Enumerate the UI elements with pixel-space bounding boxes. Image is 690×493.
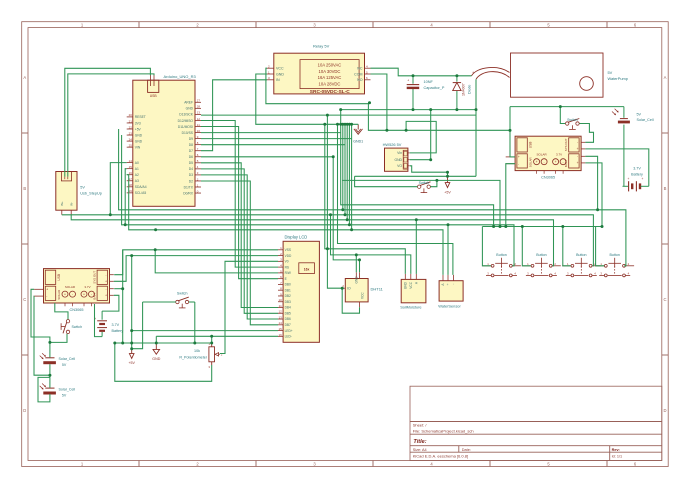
wire switch SW8 left feed <box>143 301 176 303</box>
svg-text:+: + <box>64 292 66 296</box>
svg-text:SDA/A4: SDA/A4 <box>135 185 147 189</box>
svg-text:Vin: Vin <box>397 151 402 155</box>
wire VDD right rail to SoilMoisture VCC <box>331 215 411 274</box>
LCD pins 1-16 <box>278 246 293 338</box>
svg-text:Solar_Cell: Solar_Cell <box>59 388 76 392</box>
svg-text:+: + <box>105 294 107 298</box>
wire D13 branch to DHT IO <box>327 115 342 288</box>
svg-text:DB4: DB4 <box>285 306 291 310</box>
battery BT1 3.7V (right) <box>623 167 649 192</box>
svg-text:+: + <box>83 292 85 296</box>
svg-text:3.7V: 3.7V <box>556 152 562 156</box>
boost module U8 5V Usb_StepUp <box>56 172 102 215</box>
wire switch SW8 left leg <box>132 302 143 349</box>
solar cell PV2 5V Solar_Cell (upper left) <box>40 353 76 367</box>
diode D1 1N4007 <box>453 76 472 110</box>
wire pump cable second terminal <box>475 79 477 109</box>
capacitor C1 10NF Capacitor_P <box>407 76 445 110</box>
ground GND1 <box>353 124 363 143</box>
svg-text:D5: D5 <box>189 161 193 165</box>
svg-text:+: + <box>555 160 557 164</box>
svg-text:D0/RX: D0/RX <box>183 191 194 195</box>
wire GND rail mid <box>115 342 212 344</box>
wire GND trunk left <box>122 250 124 343</box>
svg-text:A: A <box>664 75 667 80</box>
Arduino UNO R3 module A1 <box>133 74 197 206</box>
svg-text:Date:: Date: <box>462 448 471 452</box>
svg-text:15: 15 <box>129 165 133 169</box>
svg-text:21: 21 <box>129 119 133 123</box>
svg-text:AREF: AREF <box>184 101 193 105</box>
svg-text:RESET: RESET <box>135 115 146 119</box>
svg-text:File: SchematicaProject.kicad_: File: SchematicaProject.kicad_sch <box>413 428 474 433</box>
wire A0 to row3 <box>110 163 126 215</box>
svg-text:DHT11: DHT11 <box>371 287 384 292</box>
wire USB D- StepUp to Arduino <box>68 74 154 177</box>
svg-text:USB: USB <box>529 142 533 149</box>
svg-text:Switch: Switch <box>177 292 188 296</box>
svg-text:D2: D2 <box>189 179 193 183</box>
svg-text:GND: GND <box>186 107 194 111</box>
wire solar cell2 loop <box>38 377 50 402</box>
svg-text:A2: A2 <box>135 173 139 177</box>
svg-text:WaterSensor: WaterSensor <box>438 304 461 309</box>
svg-text:+: + <box>472 71 474 75</box>
svg-text:A1: A1 <box>135 167 139 171</box>
relay K1 Relay 5V <box>274 44 365 95</box>
wire relay GND trunk <box>256 74 358 124</box>
svg-text:28: 28 <box>197 105 201 109</box>
svg-text:-: - <box>452 284 456 285</box>
svg-text:+: + <box>577 147 579 151</box>
svg-text:RS: RS <box>285 265 289 269</box>
relay right pins NC COM NO <box>354 65 370 83</box>
wire D4 to LCD DB5 <box>201 169 278 313</box>
button SW5 <box>522 253 561 277</box>
svg-text:+: + <box>518 155 520 159</box>
wire SoilMoisture A to row4 <box>415 220 417 274</box>
wire D3 to LCD DB6 <box>201 175 278 319</box>
svg-text:+: + <box>407 79 409 83</box>
svg-text:11: 11 <box>197 123 200 127</box>
wire cluster line 4 <box>346 124 348 220</box>
svg-text:GND1: GND1 <box>353 139 363 143</box>
wire D8 long wire <box>201 144 345 146</box>
svg-text:1N4007: 1N4007 <box>462 83 466 96</box>
wire cluster line 6 <box>351 124 353 230</box>
wire switch SW2 right to switched rail <box>430 180 437 186</box>
svg-text:VCC: VCC <box>276 67 284 71</box>
wire cluster line 5 <box>348 124 350 225</box>
wire switched +5V rail <box>342 180 500 226</box>
display LCD1 Display LCD <box>283 235 319 343</box>
wire D6 to DHT11 second pin <box>201 157 360 272</box>
wire row3 stepup+ to button3 pin2 <box>62 215 594 266</box>
svg-text:IN: IN <box>276 78 280 82</box>
svg-text:22: 22 <box>129 125 133 129</box>
wire COM node to +5V rail <box>475 110 477 177</box>
wire solar input + left <box>31 289 50 357</box>
svg-text:23: 23 <box>129 131 133 135</box>
svg-text:-: - <box>563 160 564 164</box>
svg-text:D4: D4 <box>189 167 193 171</box>
svg-text:KiCad E.D.A. eeschema [6.0.8]: KiCad E.D.A. eeschema [6.0.8] <box>413 454 468 459</box>
svg-text:Battery: Battery <box>631 172 643 176</box>
svg-text:COM: COM <box>354 72 362 76</box>
svg-text:5V: 5V <box>80 185 85 189</box>
wire D12 to LCD RS <box>201 121 278 268</box>
svg-text:VCC: VCC <box>361 292 365 299</box>
wire D9 long wire <box>201 138 352 140</box>
svg-text:-: - <box>72 292 73 296</box>
wire button3 pin1 drop <box>563 227 571 266</box>
svg-text:14: 14 <box>278 321 282 325</box>
svg-text:WaterPump: WaterPump <box>608 76 628 81</box>
wire DHT11 bottom hook <box>342 288 359 313</box>
svg-text:C: C <box>23 297 26 302</box>
wire solar cell2 top lead <box>49 377 51 387</box>
sensor U5 WaterSensor <box>438 275 463 309</box>
svg-text:25: 25 <box>129 143 133 147</box>
wire +5V drop from VDD rail <box>131 256 133 349</box>
svg-text:10A 250VAC: 10A 250VAC <box>318 62 342 67</box>
svg-text:5V: 5V <box>608 70 613 75</box>
wire switch SW1 to SYS OUT - <box>579 124 593 143</box>
svg-text:GND: GND <box>276 72 284 76</box>
svg-text:-: - <box>105 287 106 291</box>
svg-text:+: + <box>577 161 579 165</box>
water pump M1 5V WaterPump <box>511 53 628 97</box>
svg-text:14: 14 <box>129 159 133 163</box>
wire relay VCC to solar rail <box>266 68 510 130</box>
svg-text:V0: V0 <box>285 260 289 264</box>
svg-text:GND: GND <box>404 281 408 289</box>
svg-text:DB3: DB3 <box>285 300 291 304</box>
sensor U4 SoilMoisture <box>400 274 426 310</box>
button SW4 <box>482 253 521 277</box>
svg-text:+5V: +5V <box>444 191 451 195</box>
svg-text:SOLAR: SOLAR <box>65 285 76 289</box>
svg-text:-: - <box>544 160 545 164</box>
svg-text:D3: D3 <box>189 173 193 177</box>
Arduino right-side pins D0-D13/AREF/GND <box>178 99 201 196</box>
twisted-pair cable to water pump <box>472 68 510 80</box>
svg-text:D6: D6 <box>189 155 193 159</box>
svg-text:Button: Button <box>610 253 620 257</box>
svg-text:NO: NO <box>357 78 363 82</box>
svg-text:+: + <box>46 288 48 292</box>
svg-text:A: A <box>23 75 26 80</box>
solar cell PV3 5V Solar_Cell (lower left) <box>40 384 76 398</box>
wire relay NC node <box>371 68 472 76</box>
svg-text:Arduino_UNO_R3: Arduino_UNO_R3 <box>164 74 197 79</box>
svg-text:-: - <box>91 292 92 296</box>
wire D13 long wire <box>201 114 476 116</box>
title block <box>410 386 662 460</box>
wire switch SW3 top <box>55 303 68 319</box>
junction GND trunk cluster <box>323 123 353 126</box>
svg-text:Switch: Switch <box>419 181 430 185</box>
wire SYS OUT + to battery right <box>585 149 648 186</box>
svg-text:10A 28VDC: 10A 28VDC <box>319 82 341 87</box>
wire BATT - right <box>585 156 597 210</box>
svg-text:13: 13 <box>278 315 282 319</box>
svg-text:15: 15 <box>278 327 282 331</box>
svg-text:Title:: Title: <box>413 439 426 445</box>
svg-text:16A 125VAC: 16A 125VAC <box>318 75 342 80</box>
wire D10 long wire <box>201 132 341 134</box>
ground GND (bottom left) <box>152 343 160 361</box>
svg-text:Solar_Cell: Solar_Cell <box>637 118 654 122</box>
svg-text:Display LCD: Display LCD <box>285 235 308 240</box>
svg-text:DB6: DB6 <box>285 317 291 321</box>
switch SW8 (display power) <box>176 292 189 308</box>
svg-text:D9: D9 <box>189 137 193 141</box>
wire USB D+ StepUp to Arduino <box>65 68 151 176</box>
wire cluster line 2 <box>342 124 344 210</box>
svg-text:-: - <box>577 155 578 159</box>
wire switch SW2 left feed <box>355 176 418 186</box>
junction solar left <box>48 341 213 377</box>
junction HW526 area <box>368 101 449 182</box>
wire potentiometer return loop <box>115 343 212 381</box>
svg-text:+5V: +5V <box>135 127 142 131</box>
button SW7 <box>596 253 635 277</box>
svg-text:GND: GND <box>135 133 143 137</box>
svg-text:Diode: Diode <box>468 85 472 94</box>
svg-text:Button: Button <box>536 253 546 257</box>
svg-text:12: 12 <box>278 310 282 314</box>
svg-text:D: D <box>663 408 666 413</box>
svg-text:Solar_Cell: Solar_Cell <box>59 357 76 361</box>
svg-text:DB2: DB2 <box>285 294 291 298</box>
svg-text:D13/SCK: D13/SCK <box>179 113 194 117</box>
svg-text:D7: D7 <box>189 149 193 153</box>
svg-text:27: 27 <box>197 99 201 103</box>
svg-text:VIN: VIN <box>135 145 141 149</box>
wire solar input - left <box>34 296 50 375</box>
wire row5 GND to button1 pin2 <box>122 135 514 266</box>
svg-text:HW526 5V: HW526 5V <box>383 142 402 147</box>
power +5V (bottom left) <box>128 349 135 365</box>
svg-text:10: 10 <box>197 129 201 133</box>
wire pump area rail <box>510 106 624 108</box>
wire HW526 VO to +5V <box>410 166 448 177</box>
junction relay node junctions <box>326 74 478 132</box>
Arduino analog pins A0-A5 <box>127 159 147 195</box>
svg-text:Sheet: /: Sheet: / <box>413 422 428 427</box>
svg-text:12: 12 <box>197 117 201 121</box>
svg-text:D: D <box>23 408 26 413</box>
wire rail to switch SW1 <box>560 107 565 124</box>
svg-text:IN+: IN+ <box>60 201 64 206</box>
svg-text:13: 13 <box>197 111 201 115</box>
svg-text:10NF: 10NF <box>424 80 434 84</box>
wire left CN SYS+ to LCD VDD <box>114 256 278 282</box>
svg-text:+: + <box>105 280 107 284</box>
wire GND right rail to SoilMoisture GND <box>325 124 406 274</box>
svg-text:USB: USB <box>150 94 158 98</box>
svg-text:5V: 5V <box>637 112 642 116</box>
svg-text:VDD: VDD <box>285 254 292 258</box>
svg-text:3.7V: 3.7V <box>633 167 641 171</box>
wire GND cluster line 1 to buttons <box>341 124 494 226</box>
svg-text:16: 16 <box>278 333 282 337</box>
wire left CN SYS- to LCD VSS <box>114 250 278 275</box>
wire A1 to row5 <box>125 169 127 225</box>
svg-text:D12/MISO: D12/MISO <box>178 119 194 123</box>
svg-text:3.7V: 3.7V <box>112 323 120 327</box>
svg-text:SOLAR: SOLAR <box>57 290 61 300</box>
svg-text:SOLAR: SOLAR <box>529 157 533 167</box>
svg-text:DB0: DB0 <box>285 283 291 287</box>
svg-text:+: + <box>446 283 450 285</box>
svg-text:DB5: DB5 <box>285 311 291 315</box>
wire V0 to potentiometer wiper <box>220 261 278 353</box>
svg-text:A3: A3 <box>135 179 139 183</box>
svg-text:SRC-05VDC-SL-C: SRC-05VDC-SL-C <box>310 89 351 95</box>
svg-text:+: + <box>642 177 644 181</box>
buck converter U2 HW526 5V <box>383 142 410 171</box>
svg-text:B: B <box>664 186 667 191</box>
svg-text:VO: VO <box>397 164 402 168</box>
wire left CN BATT+ to battery <box>102 295 119 311</box>
wire switch SW8 right feed <box>189 301 195 303</box>
svg-text:C: C <box>663 297 666 302</box>
svg-text:24: 24 <box>129 137 133 141</box>
svg-text:-: - <box>46 294 47 298</box>
svg-text:VSS: VSS <box>285 248 291 252</box>
wire D11 to LCD E <box>201 127 278 279</box>
wire CN3065 right usb - input <box>506 164 515 227</box>
svg-text:IN-: IN- <box>70 202 74 206</box>
junction rows <box>109 208 604 231</box>
wire LED+ line <box>132 330 278 332</box>
wire battery left bottom hook <box>95 304 103 337</box>
wire +5V row to button4 pin2 <box>119 129 626 266</box>
switch SW3 (left battery) <box>61 320 82 334</box>
svg-text:SYS OUT: SYS OUT <box>564 138 568 151</box>
svg-text:Switch: Switch <box>72 325 83 329</box>
battery BT2 3.7V (left) <box>94 311 123 337</box>
svg-text:Relay 5V: Relay 5V <box>313 44 330 49</box>
wire button1 pin1 drop <box>482 227 490 266</box>
svg-text:Usb_StepUp: Usb_StepUp <box>80 191 102 195</box>
svg-text:SCL/A5: SCL/A5 <box>135 191 147 195</box>
svg-text:IO: IO <box>347 287 351 291</box>
svg-text:+: + <box>628 177 630 181</box>
svg-text:LED-: LED- <box>285 335 292 339</box>
wire WaterSensor + to row5 <box>447 225 449 275</box>
svg-text:10: 10 <box>278 298 282 302</box>
relay left pins VCC GND IN <box>267 65 284 83</box>
wire pot top to LED- junction <box>211 336 213 343</box>
potentiometer RV1 10k R_Potentiometer <box>179 342 222 369</box>
charger module U7 CN3065 (left) <box>34 269 114 312</box>
svg-text:Battery: Battery <box>112 329 124 333</box>
svg-text:SoilMoisture: SoilMoisture <box>400 305 421 310</box>
wire row6 A2 <box>127 175 443 275</box>
wire D2 to LCD DB7 <box>201 181 278 325</box>
charger module U6 CN3065 (right) <box>506 136 586 179</box>
wire HW526 GND feed <box>410 110 431 160</box>
svg-text:-: - <box>577 141 578 145</box>
wire BATT + right drop <box>585 163 602 227</box>
junction LCD area <box>113 155 361 350</box>
wire Arduino D7 to relay IN <box>201 80 267 151</box>
wire switch SW3 branch <box>50 334 67 343</box>
svg-text:Button: Button <box>576 253 586 257</box>
svg-text:Button: Button <box>496 253 506 257</box>
svg-text:GND: GND <box>152 357 160 361</box>
svg-text:Size: A4: Size: A4 <box>413 448 427 452</box>
svg-text:B: B <box>23 186 26 191</box>
switch SW1 (solar, top right) <box>566 118 580 130</box>
wire CN3065 right solar + input <box>510 107 515 157</box>
svg-text:USB: USB <box>57 274 61 281</box>
svg-text:10k: 10k <box>194 349 200 353</box>
svg-text:CN3065: CN3065 <box>70 308 84 312</box>
wire GND drop LED- <box>155 336 157 343</box>
svg-text:A0: A0 <box>135 161 139 165</box>
svg-text:SOLAR: SOLAR <box>537 152 548 156</box>
wire D5 to LCD DB4 <box>201 163 278 308</box>
svg-text:16x: 16x <box>304 268 310 272</box>
power +5V (near HW526) <box>444 177 451 195</box>
svg-text:-: - <box>518 162 519 166</box>
wire button2 pin1 drop <box>522 227 530 266</box>
svg-text:10A 30VDC: 10A 30VDC <box>319 69 341 74</box>
switch SW2 (HW526 output) <box>418 181 431 193</box>
svg-text:R_Potentiometer: R_Potentiometer <box>179 355 207 359</box>
svg-text:GND: GND <box>355 276 359 284</box>
svg-text:5V: 5V <box>62 363 67 367</box>
svg-text:DB7: DB7 <box>285 323 291 327</box>
svg-text:CN3065: CN3065 <box>541 176 555 180</box>
svg-text:Rev:: Rev: <box>612 448 620 452</box>
svg-text:VCC: VCC <box>409 281 413 288</box>
svg-text:NC: NC <box>357 67 363 71</box>
wire relay COM node <box>371 74 387 130</box>
wire button4 pin1 drop <box>596 227 605 266</box>
wire switch SW8 right leg <box>194 302 196 343</box>
wire R/W tie <box>155 250 278 273</box>
wire rail to WaterSensor - <box>338 124 453 275</box>
svg-text:DB1: DB1 <box>285 288 291 292</box>
svg-text:E: E <box>285 277 287 281</box>
svg-text:5V: 5V <box>62 393 67 397</box>
wire DHT11 VCC branch <box>355 255 357 272</box>
wire buttons common rail <box>482 226 602 228</box>
wire node rail to GND trunk <box>340 110 342 125</box>
svg-text:D8: D8 <box>189 143 193 147</box>
wire row4 stepup- to button2 pin2 <box>71 215 553 266</box>
wire HW526 Vin feed <box>406 121 436 152</box>
wire cap-diode node rail <box>341 109 476 111</box>
svg-text:R/W: R/W <box>285 271 291 275</box>
svg-text:D11/MOSI: D11/MOSI <box>178 125 193 129</box>
wire +5V rail (middle) <box>355 175 476 177</box>
svg-text:20: 20 <box>129 113 133 117</box>
button SW6 <box>562 253 601 277</box>
svg-text:Capacitor_P: Capacitor_P <box>424 86 445 90</box>
svg-text:+: + <box>536 160 538 164</box>
wire cluster line 3 <box>344 124 346 215</box>
svg-text:3V3: 3V3 <box>135 121 141 125</box>
junction right rail <box>509 105 562 132</box>
svg-text:-: - <box>105 273 106 277</box>
svg-text:SYS OUT: SYS OUT <box>92 271 96 284</box>
